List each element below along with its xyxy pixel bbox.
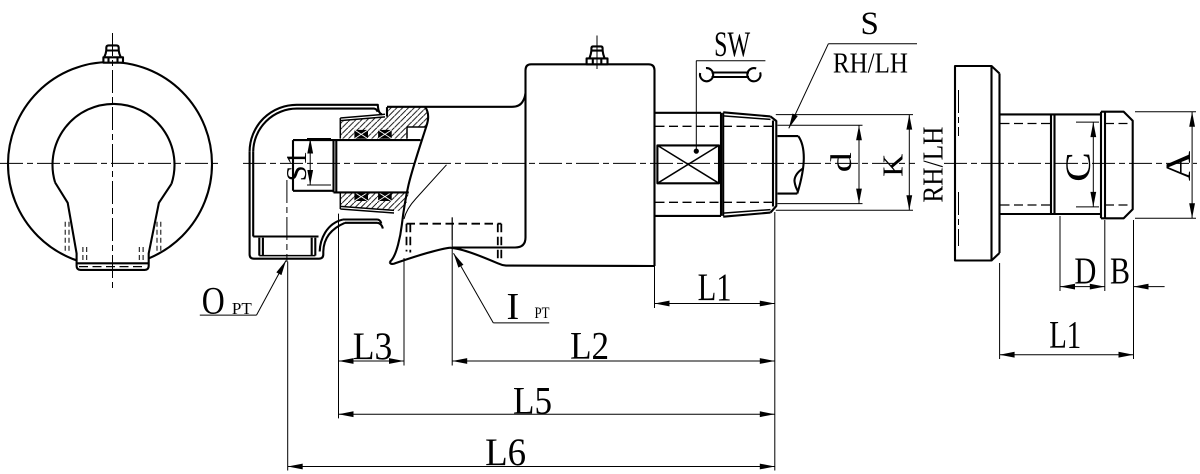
svg-text:L5: L5 <box>513 380 552 423</box>
svg-text:S: S <box>861 6 879 42</box>
svg-text:d: d <box>825 152 858 172</box>
svg-text:D: D <box>1074 251 1096 293</box>
svg-text:C: C <box>1058 152 1098 182</box>
svg-text:L6: L6 <box>485 431 526 474</box>
svg-text:L2: L2 <box>570 325 609 368</box>
svg-text:I: I <box>506 286 519 328</box>
svg-text:K: K <box>877 154 909 177</box>
svg-text:SW: SW <box>714 24 750 64</box>
svg-text:RH/LH: RH/LH <box>918 127 950 203</box>
svg-text:PT: PT <box>535 305 550 322</box>
svg-text:L3: L3 <box>353 325 393 368</box>
svg-text:RH/LH: RH/LH <box>833 47 908 79</box>
svg-text:O: O <box>202 280 225 323</box>
svg-text:L1: L1 <box>698 266 732 309</box>
svg-text:S1: S1 <box>281 151 313 181</box>
svg-text:B: B <box>1110 251 1130 293</box>
svg-text:L1: L1 <box>1049 314 1081 357</box>
svg-text:A: A <box>1158 151 1198 181</box>
